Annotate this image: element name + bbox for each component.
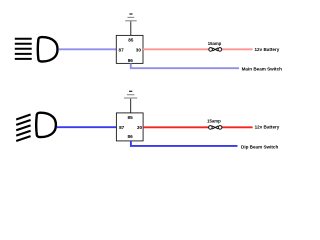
relay box U1 <box>116 35 143 63</box>
wire: fuse to battery (red) <box>222 126 253 128</box>
fuse F2 <box>209 126 222 130</box>
svg-text:15amp: 15amp <box>208 41 222 46</box>
beam bar 4 <box>15 53 32 55</box>
wire: relay 86 to switch (blue) <box>131 141 238 146</box>
wire: lamp to relay 87 (light blue) <box>59 48 117 50</box>
wire: relay 30 to fuse (salmon red) <box>143 48 209 50</box>
headlamp dip-beam symbol (lamp D-shape with slanted beam bars) <box>16 115 30 142</box>
ground symbol <box>125 14 137 21</box>
beam bar 5 <box>15 58 32 60</box>
svg-text:30: 30 <box>137 125 143 130</box>
relay box U2 <box>116 113 143 141</box>
lamp body (D shape) <box>36 113 56 137</box>
svg-text:12v Battery: 12v Battery <box>255 125 280 130</box>
beam bar 2 <box>15 43 32 45</box>
svg-text:30: 30 <box>136 47 142 52</box>
wire: relay 85 to ground <box>130 98 132 113</box>
svg-text:15amp: 15amp <box>207 119 221 124</box>
beam bar 2 <box>16 120 30 125</box>
beam bar 3 <box>15 48 32 50</box>
beam bar 1 <box>15 38 32 40</box>
svg-text:85: 85 <box>128 38 134 43</box>
ground symbol <box>124 91 137 98</box>
beam bar 4 <box>16 131 30 136</box>
wire: lamp to relay 87 (blue) <box>57 126 116 128</box>
svg-text:86: 86 <box>128 58 134 63</box>
lamp body (D shape) <box>38 37 58 61</box>
svg-text:85: 85 <box>127 115 133 120</box>
beam bar 3 <box>16 125 30 130</box>
svg-text:86: 86 <box>127 134 133 139</box>
svg-text:12v Battery: 12v Battery <box>255 47 280 52</box>
wire: relay 30 to fuse (red) <box>143 126 209 128</box>
beam bar 5 <box>16 136 30 141</box>
svg-text:Main Beam Switch: Main Beam Switch <box>242 67 283 72</box>
svg-text:87: 87 <box>118 47 124 52</box>
headlamp main-beam symbol (lamp D-shape with horizontal beam bars) <box>15 39 32 59</box>
fuse F1 <box>209 48 222 52</box>
svg-text:Dip Beam Switch: Dip Beam Switch <box>241 144 278 149</box>
wire: fuse to battery (salmon red) <box>222 48 253 50</box>
wire: relay 85 to ground <box>130 21 132 36</box>
svg-text:87: 87 <box>119 125 125 130</box>
beam bar 1 <box>16 115 30 120</box>
wire: relay 86 to switch (light blue) <box>131 63 239 68</box>
